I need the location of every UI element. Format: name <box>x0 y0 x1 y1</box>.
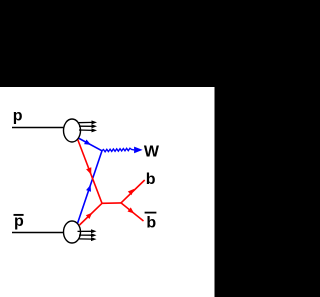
wire: red bbar quark line F <box>121 202 144 220</box>
wire: blue quark line B (bottom blob up to W vertex) <box>77 150 102 223</box>
wire: top remnant arrow 2 <box>79 125 93 127</box>
white canvas <box>0 87 215 297</box>
svg-text:W: W <box>144 143 160 160</box>
wire: red propagator D (V2 to V3) <box>102 201 121 203</box>
svg-text:p: p <box>13 107 23 124</box>
node blob: top proton ellipse <box>64 119 81 142</box>
node W arrowhead <box>134 146 143 153</box>
wire: red quark line C (top blob down to vertex V2) <box>76 135 102 203</box>
node arrowhead on line F <box>128 207 135 213</box>
node arrowhead on line A <box>84 139 91 144</box>
wire: bbar overline <box>145 211 157 213</box>
node arrowhead on line C <box>86 167 91 175</box>
wire: incoming antiproton line <box>12 231 64 233</box>
node blob: bottom antiproton ellipse <box>64 221 81 243</box>
wire: blue quark line A (top blob to W vertex) <box>76 136 103 150</box>
wire: red b quark line E <box>121 180 145 203</box>
wire: top remnant arrow 1 <box>78 121 94 123</box>
wire: pbar overline <box>14 213 24 215</box>
svg-text:b: b <box>146 214 156 231</box>
wire: incoming proton line <box>12 126 64 128</box>
wire: bottom remnant arrow 3 <box>79 237 93 239</box>
wire: bottom remnant arrow 2 <box>79 234 93 236</box>
svg-text:b: b <box>146 170 156 187</box>
wire: top remnant arrow 3 <box>79 129 93 131</box>
wire: wavy W boson line <box>102 148 134 152</box>
node arrowhead on line E <box>128 188 134 194</box>
wire: red quark line G (bottom blob up to vertex V2) <box>80 203 103 225</box>
node arrowhead on line B <box>86 184 91 191</box>
node arrowhead on line G <box>86 212 92 218</box>
wire: bottom remnant arrow 1 <box>78 230 93 232</box>
